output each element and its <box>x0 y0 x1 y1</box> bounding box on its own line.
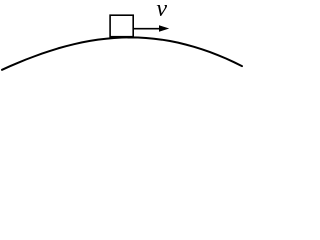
velocity arrow head <box>159 25 169 32</box>
svg-text:v: v <box>156 0 167 22</box>
block on hill <box>110 15 133 37</box>
velocity arrow shaft <box>134 28 161 30</box>
curved hill surface <box>2 37 242 69</box>
